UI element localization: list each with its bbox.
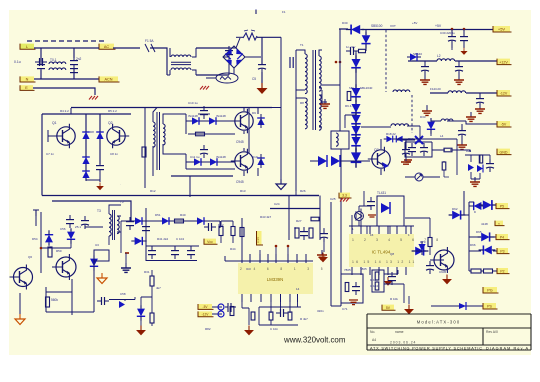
net label -5V sense bbox=[198, 304, 214, 309]
wire: +12V rail bbox=[408, 60, 497, 62]
wire: aux rect row bbox=[131, 220, 220, 222]
svg-text:R82: R82 bbox=[205, 327, 211, 331]
svg-text:3.3: 3.3 bbox=[342, 194, 347, 198]
wire: standby mesh bbox=[41, 242, 71, 248]
wire: C35 legs bbox=[479, 93, 481, 107]
svg-text:0.1u: 0.1u bbox=[14, 60, 21, 64]
wire: thermistor left bbox=[206, 77, 216, 79]
svg-text:P5: P5 bbox=[500, 204, 504, 208]
wire: standby left drops bbox=[36, 212, 41, 273]
svg-text:D30: D30 bbox=[342, 21, 348, 25]
wire: filter bottom bus bbox=[34, 78, 99, 80]
IC U1 top pin 1 bbox=[351, 226, 353, 234]
wire: to bridge caps bbox=[196, 48, 229, 75]
svg-text:LM339N: LM339N bbox=[267, 277, 284, 282]
regulator box U2 TL431 bbox=[377, 196, 404, 226]
node label L (AC line) bbox=[20, 44, 36, 50]
ground C34 bbox=[454, 75, 464, 84]
resistor R40 bbox=[175, 219, 184, 223]
diode D57 bbox=[119, 301, 125, 308]
svg-text:2n2: 2n2 bbox=[76, 57, 82, 61]
wire: AC line dashed top bbox=[27, 40, 105, 42]
svg-text:M o d e l : A T X - 3 0 0: M o d e l : A T X - 3 0 0 bbox=[417, 320, 460, 325]
net label PG bbox=[483, 287, 499, 293]
transformer T3 secondary bbox=[117, 216, 119, 234]
svg-text:5V: 5V bbox=[386, 306, 391, 310]
wire: C31 C32 legs bbox=[452, 29, 464, 48]
transformer T2 primary winding bbox=[153, 122, 155, 147]
fuse F1 symbol marks bbox=[145, 44, 155, 52]
svg-text:14: 14 bbox=[296, 287, 300, 291]
ground aux b bbox=[466, 112, 476, 121]
svg-text:R8: R8 bbox=[300, 101, 304, 105]
wire: primary stage box outline bbox=[42, 114, 319, 196]
svg-text:PG: PG bbox=[487, 289, 493, 293]
transistor Q8 bbox=[430, 247, 454, 273]
wire: +5V rail bbox=[339, 28, 493, 31]
svg-text:name: name bbox=[395, 330, 404, 334]
capacitor C33 bbox=[421, 62, 429, 75]
svg-text:R22: R22 bbox=[408, 137, 414, 141]
svg-text:R50: R50 bbox=[56, 249, 62, 253]
wire: standby bus pair bbox=[331, 149, 341, 306]
wire: Q7 col em bbox=[380, 139, 382, 175]
ground sense bbox=[244, 326, 254, 336]
junction b bbox=[287, 245, 290, 248]
wire: q8 links bbox=[414, 218, 444, 260]
svg-text:PS: PS bbox=[487, 305, 492, 309]
IC U1 bottom pin 14 bbox=[369, 267, 371, 275]
svg-text:3.3V: 3.3V bbox=[256, 237, 260, 243]
tick mark bbox=[33, 210, 39, 216]
wire: driver mid rail bbox=[248, 108, 250, 155]
diode D22 rectifier bbox=[351, 55, 361, 73]
resistor R53 bbox=[150, 313, 154, 323]
wire: bridge to thermistor bbox=[233, 68, 235, 74]
wire: T1 top feed bbox=[296, 50, 305, 54]
wire: link bbox=[405, 217, 430, 219]
net label PS2 bbox=[496, 234, 510, 240]
IC U4 bottom pin 8 bbox=[297, 294, 299, 302]
resistor R74 bbox=[375, 282, 379, 290]
svg-text:F1: F1 bbox=[282, 10, 286, 14]
diode D2 damper bbox=[96, 128, 104, 142]
wire: rail at fuse2 bbox=[236, 36, 243, 38]
IC U1 bottom pin 10 bbox=[405, 267, 407, 275]
inductor aux winding bbox=[393, 90, 410, 92]
wire: snub join bbox=[86, 171, 100, 182]
svg-text:D33: D33 bbox=[420, 115, 426, 119]
svg-text:Q1: Q1 bbox=[52, 121, 57, 125]
svg-text:C5: C5 bbox=[252, 77, 256, 81]
svg-text:C 104: C 104 bbox=[370, 284, 378, 288]
node label N (AC neutral) bbox=[20, 76, 36, 82]
svg-text:D65: D65 bbox=[476, 230, 482, 234]
svg-text:No.: No. bbox=[370, 330, 375, 334]
svg-text:D: D bbox=[474, 210, 476, 214]
wire: lower-left link bbox=[225, 306, 236, 308]
svg-text:T1: T1 bbox=[300, 43, 304, 47]
IC U4 bottom pin 13 bbox=[250, 294, 252, 302]
svg-text:+5V: +5V bbox=[498, 27, 506, 32]
capacitor CY2 bbox=[70, 64, 78, 77]
wire: PSON line bbox=[431, 305, 483, 307]
wire: Q7 base row bbox=[310, 160, 370, 162]
wire: bridge + out bbox=[245, 56, 261, 58]
capacitor C21 snub bbox=[346, 47, 358, 55]
svg-text:R31: R31 bbox=[144, 270, 150, 274]
net label s1 bbox=[495, 221, 505, 226]
diode D30 output bbox=[346, 25, 364, 35]
transistor Q1 primary switch bbox=[53, 124, 75, 148]
diode D27 rectifier bbox=[351, 133, 361, 151]
wire: C3 vertical bbox=[228, 48, 230, 75]
svg-text:16 15 14 13 12 11: 16 15 14 13 12 11 bbox=[352, 260, 417, 264]
svg-text:320n: 320n bbox=[317, 309, 324, 313]
ground C33 bbox=[420, 75, 430, 84]
diode D24 rectifier bbox=[351, 100, 361, 118]
wire: drive left drop bbox=[144, 108, 146, 189]
svg-text:Z5.1: Z5.1 bbox=[75, 225, 81, 229]
svg-text:R13: R13 bbox=[240, 189, 246, 193]
wire: sec tap link bbox=[322, 84, 340, 86]
diode D51 bbox=[159, 217, 173, 225]
transistor Q6 standby bbox=[10, 265, 33, 290]
optocoupler winding box bbox=[331, 131, 349, 149]
capacitor C70 bbox=[276, 309, 288, 317]
transistor Q4 driver bbox=[231, 149, 253, 173]
wire: sense gnd bbox=[242, 302, 249, 325]
transistor Q3 driver bbox=[231, 109, 253, 133]
resistor R60 bbox=[295, 228, 299, 238]
svg-text:D10: D10 bbox=[252, 155, 258, 159]
diode D43 flyback bbox=[331, 156, 340, 166]
transformer T1 secondary top bbox=[319, 56, 321, 91]
capacitor C34 bbox=[455, 62, 463, 75]
wire: D62 row bbox=[449, 191, 469, 215]
wire: -5V rail bbox=[431, 118, 497, 124]
diode D52 bbox=[194, 217, 208, 225]
output label -5V bbox=[497, 121, 512, 127]
wire: C5 vertical bbox=[261, 37, 263, 83]
wire: IC2 top feeds bbox=[242, 246, 288, 254]
svg-text:-5V: -5V bbox=[501, 123, 507, 127]
IC U1 top pin 4 bbox=[378, 226, 380, 234]
wire: pg sense cluster bbox=[465, 155, 490, 179]
wire: PSON bus bbox=[468, 202, 470, 271]
diode D42 flyback bbox=[318, 156, 327, 166]
ground aux a bbox=[422, 106, 432, 115]
resistor R12 bbox=[196, 132, 205, 136]
transistor Q5 standby bbox=[52, 254, 76, 280]
svg-text:1n 2kV: 1n 2kV bbox=[346, 45, 355, 49]
svg-text:N: N bbox=[26, 78, 29, 82]
transformer T1 primary winding bbox=[305, 54, 307, 94]
capacitor C35 bbox=[476, 94, 484, 107]
output label +5V bbox=[493, 26, 512, 32]
wire: tap to gnd bbox=[322, 102, 327, 104]
wire: tick bbox=[272, 107, 281, 109]
diode D62 bbox=[449, 210, 466, 219]
wire: choke left joins bbox=[167, 48, 170, 75]
svg-text:T0.1: T0.1 bbox=[50, 58, 57, 62]
svg-text:-12V: -12V bbox=[500, 92, 508, 96]
inductor T0 choke winding bottom bbox=[171, 68, 191, 70]
capacitor C56 bbox=[66, 215, 74, 228]
IC U4 bottom pin 10 bbox=[280, 294, 282, 302]
IC U4 top pin 4 bbox=[267, 254, 269, 263]
svg-text:D8: D8 bbox=[90, 130, 94, 134]
resistor R42 bbox=[219, 227, 223, 236]
svg-text:C 10n: C 10n bbox=[270, 327, 278, 331]
wire: R52 R53 legs bbox=[141, 270, 152, 326]
capacitor C71 bbox=[352, 282, 360, 295]
ground IC2 bbox=[318, 253, 328, 263]
wire: bus drop bbox=[42, 176, 190, 197]
node label E (earth) bbox=[20, 85, 35, 90]
junction sec a bbox=[335, 61, 338, 64]
resistor R snub bbox=[347, 92, 351, 101]
svg-text:www.320volt.com: www.320volt.com bbox=[283, 336, 346, 345]
svg-text:L2: L2 bbox=[437, 54, 441, 58]
svg-text:P3: P3 bbox=[500, 249, 504, 253]
svg-text:C56: C56 bbox=[60, 227, 66, 231]
diode D3 bbox=[82, 153, 90, 167]
svg-text:SBL2040: SBL2040 bbox=[360, 86, 373, 90]
capacitor C60 bbox=[300, 227, 308, 240]
svg-text:IN4148: IN4148 bbox=[216, 114, 226, 118]
resistor R84 bbox=[345, 283, 349, 292]
ground cluster bbox=[404, 305, 414, 315]
capacitor C53 bbox=[187, 246, 195, 259]
wire: opto links bbox=[340, 110, 356, 131]
wire: sense leads bbox=[212, 307, 222, 314]
svg-text:R 4k7: R 4k7 bbox=[300, 317, 308, 321]
svg-text:A4: A4 bbox=[372, 338, 376, 342]
diode D25 rectifier bbox=[351, 111, 361, 129]
svg-text:D62: D62 bbox=[452, 207, 458, 211]
ground transformer center tap bbox=[320, 99, 330, 108]
wire: +5 sense drop bbox=[339, 29, 341, 131]
wire: pot row bbox=[405, 176, 440, 178]
resistor R52 bbox=[150, 276, 154, 286]
svg-text:C11 1u: C11 1u bbox=[190, 155, 200, 159]
resistor R31b bbox=[442, 162, 446, 170]
wire: IC top bus bbox=[349, 225, 414, 227]
svg-text:7805: 7805 bbox=[344, 268, 351, 272]
wire: choke right joins bbox=[192, 48, 196, 75]
wire: d33 stub bbox=[427, 105, 431, 136]
inductor L1 winding a bbox=[49, 68, 66, 70]
IC U1 top pin 3 bbox=[369, 226, 371, 234]
diode D1 damper bbox=[82, 128, 90, 142]
ground primary cap bbox=[257, 83, 268, 94]
diode D53 bbox=[131, 237, 146, 245]
resistor R72 bbox=[484, 269, 493, 273]
chassis hashes right bbox=[340, 198, 349, 202]
resistor R21 snub bbox=[359, 49, 366, 52]
svg-text:Vcc: Vcc bbox=[207, 240, 213, 244]
resistor R81 bbox=[288, 312, 292, 320]
diode D23 rectifier bbox=[351, 84, 361, 102]
resistor R71 bbox=[471, 269, 481, 273]
wire: coupling dashed b bbox=[411, 95, 413, 133]
diode D9 bbox=[207, 158, 221, 166]
wire: D10 leg bbox=[260, 154, 262, 168]
IC U1 top pin 2 bbox=[360, 226, 362, 234]
wire: stub bbox=[134, 297, 136, 300]
inductor L3 -12V bbox=[448, 91, 466, 93]
diode D54 bbox=[45, 230, 53, 245]
inductor L4 -5V bbox=[441, 119, 453, 121]
net label PSON bbox=[483, 303, 498, 309]
IC U1 bottom pin 13 bbox=[378, 267, 380, 275]
svg-text:GND: GND bbox=[500, 150, 508, 154]
IC U4 bottom pin 14 bbox=[241, 294, 243, 302]
IC U4 top pin 5 bbox=[275, 254, 277, 263]
svg-text:T3: T3 bbox=[97, 209, 101, 213]
capacitor C32 bbox=[460, 32, 468, 45]
transformer T1 secondary bottom bbox=[319, 95, 321, 130]
svg-text:R44: R44 bbox=[230, 247, 236, 251]
wire: Q1 Q2 diode legs bbox=[86, 114, 100, 180]
ground pg cluster bbox=[470, 177, 480, 186]
svg-text:T3: T3 bbox=[120, 200, 124, 204]
svg-text:R70: R70 bbox=[420, 240, 426, 244]
capacitor C57 bbox=[81, 216, 89, 229]
wire: T1 sec taps bbox=[319, 50, 322, 127]
IC U1 top pin 7 bbox=[405, 226, 407, 234]
svg-text:IC3: IC3 bbox=[246, 267, 251, 271]
svg-text:+5V: +5V bbox=[412, 21, 417, 25]
component small cap lower bbox=[228, 303, 231, 312]
ground standby bbox=[136, 326, 146, 336]
svg-text:TL431: TL431 bbox=[377, 191, 386, 195]
capacitor C3 across line bbox=[225, 46, 233, 59]
wire: T3 leads bbox=[109, 205, 121, 245]
svg-text:XXT: XXT bbox=[390, 24, 396, 28]
regulator box U5 bbox=[341, 274, 363, 303]
IC U4 top pin 7 bbox=[296, 254, 298, 263]
diode D26 rectifier bbox=[351, 122, 361, 140]
capacitor C54 bbox=[204, 223, 216, 231]
IC U1 top pin 5 bbox=[387, 226, 389, 234]
IC U1 bottom pin 12 bbox=[387, 267, 389, 275]
svg-text:C945: C945 bbox=[236, 140, 244, 144]
wire: stub bbox=[469, 202, 474, 206]
wire: C40 legs bbox=[405, 139, 407, 161]
svg-text:C71: C71 bbox=[342, 307, 348, 311]
svg-text:C8 1n: C8 1n bbox=[110, 152, 118, 156]
capacitor CX1 bbox=[35, 58, 47, 66]
svg-text:D54: D54 bbox=[32, 237, 38, 241]
diode D40 zener bbox=[384, 136, 397, 143]
diode D61 zener bbox=[418, 241, 426, 255]
svg-text:P4: P4 bbox=[500, 235, 504, 239]
svg-text:R5 2.2: R5 2.2 bbox=[108, 109, 117, 113]
wire: drop bbox=[219, 221, 221, 228]
wire: line to fuse bbox=[113, 47, 140, 49]
svg-text:-12V: -12V bbox=[202, 313, 210, 317]
output label +12V bbox=[497, 59, 512, 65]
svg-text:U3: U3 bbox=[95, 243, 99, 247]
svg-text:4k7: 4k7 bbox=[156, 286, 161, 290]
wire: IC2 top bus bbox=[225, 256, 313, 261]
IC U1 bottom pin 16 bbox=[351, 267, 353, 275]
net label -12V sense bbox=[198, 311, 214, 316]
diode D64 bbox=[479, 200, 497, 210]
diode D58 zener bbox=[137, 305, 145, 320]
svg-text:C24: C24 bbox=[274, 202, 280, 206]
wire: switch to top rail bbox=[229, 38, 240, 48]
diode D5 bbox=[189, 117, 203, 125]
capacitor C31 bbox=[448, 32, 456, 45]
wire: choke in bbox=[150, 48, 167, 75]
IC U1 bottom pin 15 bbox=[360, 267, 362, 275]
chassis hashes mid bbox=[200, 86, 209, 90]
ground snubber bbox=[96, 183, 104, 191]
chassis ground hashes left bbox=[89, 96, 98, 100]
ground bar C40 bbox=[401, 162, 411, 164]
wire: row251 bbox=[469, 250, 497, 252]
net label PS3 bbox=[497, 248, 510, 254]
wire: Q1 base stub bbox=[48, 130, 56, 142]
svg-text:C7 1n: C7 1n bbox=[46, 152, 54, 156]
capacitor C62 bbox=[367, 197, 375, 210]
IC U4 top pin 6 bbox=[287, 254, 289, 263]
winding W1 bbox=[336, 133, 338, 146]
wire: 12V caps legs bbox=[425, 61, 459, 77]
ground fb bbox=[384, 277, 393, 286]
wire: sense loop bbox=[405, 142, 470, 157]
wire: D58 legs bbox=[140, 297, 142, 326]
svg-text:F12C20: F12C20 bbox=[430, 87, 441, 91]
emitter arrow Q7 bbox=[382, 162, 389, 168]
svg-text:F1 5A: F1 5A bbox=[145, 39, 154, 43]
diode D60 bbox=[412, 246, 429, 255]
wire: -12V rail bbox=[430, 92, 497, 94]
svg-text:E: E bbox=[25, 86, 28, 90]
capacitor C36 bbox=[458, 126, 466, 139]
wire: C1 leads bbox=[40, 48, 42, 79]
title block frame bbox=[367, 314, 531, 350]
wire: aux left drop bbox=[145, 208, 147, 261]
resistor R75 bbox=[479, 155, 482, 163]
wire: cluster links bbox=[384, 270, 404, 291]
capacitor C40 bbox=[402, 145, 410, 158]
diode pair X bbox=[415, 136, 423, 144]
diode D41 zener bbox=[393, 136, 406, 143]
wire: to D57 bbox=[109, 300, 135, 302]
net label PS4 bbox=[497, 268, 510, 274]
wire: c31 gnd stub bbox=[451, 48, 453, 50]
transformer T1 primary lower bbox=[305, 98, 307, 129]
wire: upper branch frame bbox=[186, 114, 235, 134]
svg-text:R40: R40 bbox=[180, 213, 186, 217]
svg-text:R41 2k2: R41 2k2 bbox=[157, 237, 169, 241]
inductor L2 +12V bbox=[437, 59, 455, 61]
wire: R42 R43 legs bbox=[221, 221, 233, 243]
svg-text:ACN: ACN bbox=[104, 78, 112, 82]
junction +5V b bbox=[463, 28, 466, 31]
diode D21 rectifier bbox=[361, 32, 370, 49]
svg-text:C: C bbox=[294, 226, 296, 230]
resistor R61 bbox=[309, 228, 313, 238]
resistor R30 bbox=[444, 148, 452, 152]
fuse F2 squiggle bbox=[243, 33, 257, 40]
ground C32 bbox=[460, 48, 467, 55]
svg-text:C 104: C 104 bbox=[176, 237, 184, 241]
